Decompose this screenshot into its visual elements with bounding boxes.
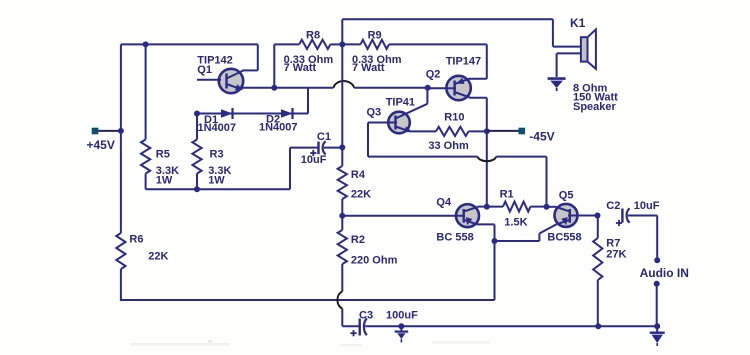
- label R9 value: [352, 54, 402, 74]
- label C1 plus: [310, 150, 316, 156]
- svg-text:R6: R6: [129, 234, 143, 246]
- label R7 value: [606, 249, 626, 261]
- resistor R10: [411, 127, 487, 136]
- node R4/R2 junction: [339, 213, 345, 219]
- resistor R9: [342, 40, 487, 49]
- node Q2 base junction: [425, 85, 431, 91]
- label R6 value: [148, 251, 168, 263]
- label R3: [210, 149, 224, 161]
- svg-text:R5: R5: [156, 149, 170, 161]
- resistor R1: [487, 202, 547, 212]
- svg-text:33 Ohm: 33 Ohm: [428, 140, 469, 152]
- wire speaker bottom stub to ground: [557, 53, 582, 77]
- wire Q4 emitter: [478, 224, 495, 300]
- wire centre rail upper: [341, 44, 343, 147]
- svg-text:Q1: Q1: [197, 64, 212, 76]
- svg-text:K1: K1: [570, 16, 586, 30]
- svg-text:R8: R8: [306, 30, 320, 42]
- svg-text:C3: C3: [359, 310, 373, 322]
- svg-text:TIP41: TIP41: [386, 96, 415, 108]
- wire Q2 collector: [470, 98, 487, 207]
- svg-text:R4: R4: [351, 169, 366, 181]
- label Audio IN: [640, 266, 689, 280]
- capacitor C2: [622, 208, 657, 222]
- wire left rail below R6: [120, 269, 122, 300]
- svg-text:1W: 1W: [156, 175, 173, 187]
- node R3 bottom junction: [194, 186, 200, 192]
- label R1 value: [504, 217, 527, 229]
- terminal pad -45V: [519, 128, 526, 135]
- node R1 right junction: [544, 204, 550, 210]
- svg-text:10uF: 10uF: [634, 200, 660, 212]
- svg-text:220 Ohm: 220 Ohm: [351, 255, 398, 267]
- label D2: [266, 113, 280, 125]
- node audio in lower terminal: [654, 281, 660, 287]
- label R4: [351, 169, 366, 181]
- label +45V: [87, 138, 115, 152]
- wire emitter rail to hop: [274, 87, 333, 89]
- wire Q3 base run: [368, 123, 478, 157]
- crossover dip under Q2 collector rail: [478, 157, 497, 162]
- wire audio in lower: [656, 284, 658, 327]
- svg-text:BC558: BC558: [547, 232, 581, 244]
- svg-text:1N4007: 1N4007: [259, 122, 298, 134]
- crossover hop centre rail over feedback line: [337, 292, 342, 309]
- svg-text:1.5K: 1.5K: [504, 217, 527, 229]
- label R10: [444, 112, 464, 124]
- label R6: [129, 234, 143, 246]
- wire bottom feedback line y=300: [120, 299, 495, 301]
- label -45V: [529, 130, 554, 144]
- label R2: [351, 234, 365, 246]
- svg-text:Speaker: Speaker: [573, 101, 617, 113]
- label C2 plus: [616, 220, 622, 226]
- node output junction R8/R9: [339, 41, 345, 47]
- svg-text:+45V: +45V: [87, 138, 115, 152]
- wire Q3 base run right: [496, 157, 546, 207]
- wire Q4 collector: [478, 206, 487, 208]
- label speaker value: [573, 82, 618, 113]
- wire +45V stub: [98, 130, 122, 132]
- wire R5/R3 bottom to C1: [146, 148, 318, 190]
- wire centre rail to C3: [342, 309, 359, 327]
- svg-text:1W: 1W: [208, 175, 225, 187]
- label C2 value: [634, 200, 660, 212]
- label Q5 type: [547, 232, 581, 244]
- transistor Q1: [197, 69, 243, 93]
- speaker K1: [581, 29, 596, 69]
- label Q4: [436, 197, 452, 209]
- svg-text:R9: R9: [368, 30, 382, 42]
- svg-text:BC 558: BC 558: [436, 232, 473, 244]
- svg-text:Q4: Q4: [436, 197, 452, 209]
- wire Q5 emitter: [495, 224, 557, 241]
- terminal pad +45V: [92, 128, 99, 135]
- label R7: [606, 238, 620, 250]
- resistor R2: [338, 216, 347, 292]
- resistor R7: [593, 216, 602, 327]
- wire top rail from output node to speaker: [342, 19, 553, 46]
- svg-text:Audio IN: Audio IN: [640, 266, 689, 280]
- label R4 value: [351, 189, 371, 201]
- label R9: [368, 30, 382, 42]
- label R10 value: [428, 140, 469, 152]
- label D1 value: [198, 122, 237, 134]
- label K1: [570, 16, 586, 30]
- wire speaker top stub: [553, 46, 581, 48]
- label Q1: [197, 64, 212, 76]
- label C2: [606, 200, 620, 212]
- svg-text:TIP147: TIP147: [446, 55, 481, 67]
- label TIP147: [446, 55, 481, 67]
- label C1: [317, 131, 331, 143]
- label R5: [156, 149, 170, 161]
- resistor R6: [116, 233, 125, 269]
- label R5 value: [156, 165, 179, 187]
- resistor R8: [274, 40, 342, 49]
- label R2 value: [351, 255, 398, 267]
- svg-text:R10: R10: [444, 112, 464, 124]
- label D1: [204, 114, 218, 126]
- label R8 value: [284, 54, 334, 74]
- node C3 ground junction: [398, 323, 404, 329]
- label Q5: [559, 190, 574, 202]
- transistor Q3: [368, 104, 427, 134]
- svg-text:27K: 27K: [606, 249, 626, 261]
- capacitor C1: [319, 141, 343, 154]
- resistor R4: [338, 147, 347, 215]
- svg-text:Q2: Q2: [426, 69, 441, 81]
- transistor Q2: [428, 76, 471, 100]
- svg-text:-45V: -45V: [529, 130, 554, 144]
- node audio in upper terminal: [654, 257, 660, 263]
- node Q1 emitter junction: [271, 85, 277, 91]
- capacitor C3: [360, 318, 658, 335]
- diode D2: [281, 108, 293, 119]
- label C3 value: [386, 310, 418, 322]
- svg-text:7 Watt: 7 Watt: [284, 62, 317, 74]
- label D2 value: [259, 122, 298, 134]
- node R7 bottom junction: [595, 323, 601, 329]
- svg-text:C1: C1: [317, 131, 331, 143]
- label TIP142: [197, 55, 232, 67]
- label C3 plus: [350, 330, 356, 336]
- wire Q2 emitter: [469, 44, 487, 78]
- crossover hop over centre rail: [334, 81, 355, 88]
- svg-text:1N4007: 1N4007: [198, 122, 237, 134]
- svg-text:22K: 22K: [351, 189, 371, 201]
- wire Q1 emitter to R8 node: [241, 44, 274, 87]
- resistor R3: [192, 114, 201, 190]
- node Q5 base junction: [595, 213, 601, 219]
- svg-text:Q5: Q5: [559, 190, 574, 202]
- label TIP41: [386, 96, 415, 108]
- svg-text:R2: R2: [351, 234, 365, 246]
- svg-text:C2: C2: [606, 200, 620, 212]
- svg-text:22K: 22K: [148, 251, 168, 263]
- label R1: [500, 189, 514, 201]
- diode D1: [221, 108, 233, 119]
- node D1 anode junction: [194, 111, 200, 117]
- label R8: [306, 30, 320, 42]
- wire Q5 collector: [547, 206, 557, 208]
- node bottom right junction: [654, 323, 660, 329]
- svg-text:100uF: 100uF: [386, 310, 418, 322]
- node +45V junction: [118, 128, 124, 134]
- wire left rail x=121: [120, 44, 122, 233]
- svg-text:R3: R3: [210, 149, 224, 161]
- wire Q3 collector to Q2 base: [426, 88, 428, 104]
- svg-text:Q3: Q3: [367, 107, 382, 119]
- wire audio in upper: [656, 216, 658, 261]
- svg-text:R1: R1: [500, 189, 514, 201]
- wire hop to Q2 base: [354, 87, 428, 89]
- node C1 junction: [339, 144, 345, 150]
- wire +45V rail y=44 from left rail to Q1 collector corner: [121, 44, 258, 70]
- transistor Q5: [555, 204, 598, 227]
- label Q4 type: [436, 232, 473, 244]
- ground below C3: [395, 326, 409, 342]
- resistor R5: [141, 44, 150, 189]
- node Q4 emitter junction: [492, 238, 498, 244]
- label Q2: [426, 69, 441, 81]
- node R5 top junction: [143, 41, 149, 47]
- label R3 value: [208, 165, 231, 187]
- svg-text:10uF: 10uF: [301, 154, 327, 166]
- wire diode rail: [197, 88, 308, 114]
- node R10 junction: [484, 128, 490, 134]
- svg-text:7 Watt: 7 Watt: [352, 62, 385, 74]
- ground bottom right: [650, 326, 665, 346]
- label C3: [359, 310, 373, 322]
- wire -45V stub: [487, 130, 520, 132]
- transistor Q4: [342, 204, 479, 227]
- label Q3: [367, 107, 382, 119]
- label C1 value: [301, 154, 327, 166]
- node R1 left junction: [484, 204, 490, 210]
- ground below speaker: [548, 79, 566, 91]
